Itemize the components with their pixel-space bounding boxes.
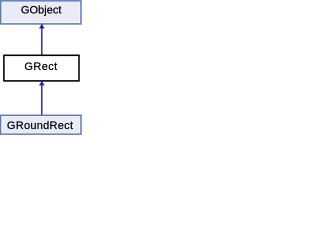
class box GObject — [1, 1, 81, 24]
class box GRect — [4, 55, 79, 81]
class box GRoundRect — [1, 115, 81, 134]
svg-text:GRoundRect: GRoundRect — [7, 120, 73, 132]
svg-text:GObject: GObject — [21, 5, 62, 17]
svg-text:GRect: GRect — [24, 61, 57, 73]
inheritance arrow from GRoundRect to GRect — [39, 81, 44, 115]
inheritance arrow from GRect to GObject — [39, 24, 44, 55]
